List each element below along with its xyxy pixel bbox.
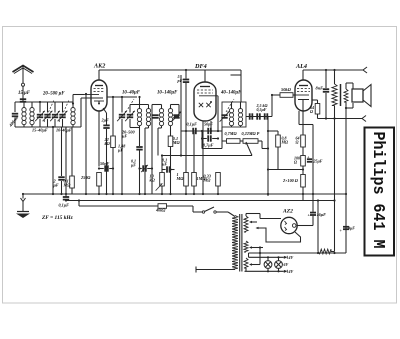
node xyxy=(333,69,335,71)
wire xyxy=(39,119,41,127)
wire xyxy=(302,187,304,201)
tap arrow xyxy=(249,263,260,265)
resistor (primary) xyxy=(332,70,337,106)
wire xyxy=(185,131,187,173)
label + xyxy=(307,155,310,160)
wire xyxy=(185,186,187,194)
capacitor 8nF xyxy=(323,89,329,92)
capacitor xyxy=(152,115,158,118)
svg-text:MΩ: MΩ xyxy=(176,176,185,181)
wire xyxy=(217,186,219,194)
label 2µF xyxy=(53,179,59,188)
variable capacitor xyxy=(117,111,127,121)
label 15-40µF xyxy=(32,128,48,133)
svg-text:+: + xyxy=(308,213,311,218)
svg-text:MΩ: MΩ xyxy=(63,182,72,187)
svg-text:10–40µF: 10–40µF xyxy=(122,91,141,96)
svg-text:µF: µF xyxy=(53,182,59,187)
wire AZ2 bottom loop xyxy=(256,227,301,242)
terminal arrow 4V xyxy=(283,270,287,273)
resistor 0.8MΩ xyxy=(276,131,281,170)
wire xyxy=(334,119,336,201)
connector tip xyxy=(362,116,366,122)
label 5pF xyxy=(177,74,183,83)
wire top rail xyxy=(99,70,241,80)
wire xyxy=(246,214,281,219)
wire cathode xyxy=(302,111,304,135)
capacitor 5pF xyxy=(183,80,189,83)
resistor 64Ω xyxy=(315,104,320,115)
wire xyxy=(112,148,114,195)
transformer core xyxy=(240,214,242,272)
resistor 10kΩ xyxy=(160,173,165,187)
svg-text:0,1µF: 0,1µF xyxy=(59,203,70,208)
connector xyxy=(21,198,26,202)
wire y155 xyxy=(162,155,252,157)
label + xyxy=(340,228,343,233)
label 0.1µF xyxy=(187,122,198,127)
wire xyxy=(331,201,335,252)
svg-text:15–40µF: 15–40µF xyxy=(32,128,48,133)
label 20-500µF xyxy=(121,130,135,139)
svg-text:DF4: DF4 xyxy=(194,63,207,70)
variable capacitor xyxy=(220,111,230,121)
variable capacitor 0.1µF xyxy=(140,165,153,172)
svg-text:10–40µF: 10–40µF xyxy=(56,128,72,133)
node xyxy=(52,126,54,128)
speaker xyxy=(352,85,371,107)
wire xyxy=(161,156,163,173)
label 4µF xyxy=(347,226,355,231)
wire xyxy=(65,127,67,197)
bus 3 xyxy=(79,201,158,207)
wire xyxy=(129,105,131,113)
tube DF4 innards xyxy=(197,87,218,108)
resistor 22kΩ xyxy=(111,136,116,148)
label 20-500µF xyxy=(42,92,65,97)
label 8nF xyxy=(316,86,324,91)
lamp rail bottom xyxy=(245,268,284,271)
resistor xyxy=(318,249,331,254)
capacitor xyxy=(257,113,260,119)
lamp rail top xyxy=(249,256,284,258)
potentiometer 0.22MΩ xyxy=(243,139,258,144)
gang dashed line xyxy=(59,100,69,122)
wire xyxy=(39,102,41,113)
wire rail2 xyxy=(318,118,363,120)
wire xyxy=(106,129,108,194)
ground drop xyxy=(22,194,24,211)
wire xyxy=(297,225,313,227)
potentiometer arrow xyxy=(156,183,163,190)
label 4V xyxy=(288,255,294,260)
label AL4 xyxy=(295,63,307,70)
wire xyxy=(181,130,222,132)
label 1MΩ xyxy=(176,172,185,181)
variable capacitor C4 xyxy=(58,111,68,121)
label 10kΩ xyxy=(150,174,156,183)
label 16µF xyxy=(317,212,327,217)
pot wiper xyxy=(245,142,252,156)
capacitor 400 cm xyxy=(12,114,18,117)
transformer core xyxy=(340,84,342,106)
capacitor xyxy=(250,113,253,119)
node xyxy=(325,117,327,119)
wire cathode xyxy=(98,111,100,167)
label 0.7µF xyxy=(203,143,214,148)
node xyxy=(345,107,347,109)
tube AZ2 innards xyxy=(285,221,297,231)
wire xyxy=(52,127,54,194)
node xyxy=(85,93,87,95)
transformer secondary winding 3 xyxy=(244,258,248,268)
capacitor 50pF xyxy=(208,128,211,134)
label AK2 xyxy=(93,63,105,70)
wire xyxy=(249,248,261,265)
wire xyxy=(221,127,223,149)
svg-text:MΩ: MΩ xyxy=(172,140,181,145)
wire xyxy=(73,95,84,104)
label 64Ω xyxy=(310,105,314,114)
wire xyxy=(145,128,149,194)
coil L1 xyxy=(22,102,26,127)
wire xyxy=(317,201,319,250)
svg-text:µF: µF xyxy=(117,147,123,152)
label 10-40µF xyxy=(122,91,141,96)
svg-text:4µF: 4µF xyxy=(347,226,355,231)
node xyxy=(317,199,319,201)
label 6V xyxy=(284,262,289,267)
tap arrow xyxy=(249,221,257,223)
svg-text:pF: pF xyxy=(177,78,183,83)
svg-text:0,7µF: 0,7µF xyxy=(203,143,214,148)
Philips 641 M text xyxy=(368,132,387,249)
node xyxy=(217,130,219,132)
label 400cm xyxy=(7,115,19,129)
coil L3 oscillator xyxy=(71,102,75,127)
resistor 1MΩ xyxy=(192,173,197,187)
wire switch feed xyxy=(193,206,202,212)
IF transformer T3 primary xyxy=(229,102,233,127)
wire xyxy=(222,140,227,142)
wire xyxy=(161,186,163,194)
label 64Ω xyxy=(296,136,300,145)
wire xyxy=(345,108,347,253)
node xyxy=(325,69,327,71)
node xyxy=(72,102,74,104)
svg-text:Ω: Ω xyxy=(310,109,313,114)
capacitor 4µF xyxy=(343,227,349,229)
wire xyxy=(70,101,74,103)
label 50kΩ xyxy=(281,87,292,92)
capacitor 16µF xyxy=(310,213,316,215)
label 25µF xyxy=(313,159,323,164)
label 0.22MΩ P xyxy=(242,131,260,136)
capacitor 1.88µF xyxy=(136,147,142,150)
wire xyxy=(346,102,353,108)
wire xyxy=(54,119,56,127)
label 0.1µF xyxy=(161,158,167,167)
wire xyxy=(210,121,212,131)
lamp xyxy=(264,256,272,272)
wire xyxy=(299,111,313,196)
wire xyxy=(268,169,303,171)
svg-text:0,7MΩ: 0,7MΩ xyxy=(225,131,238,136)
node xyxy=(267,130,269,171)
svg-text:4V: 4V xyxy=(288,255,294,260)
wire xyxy=(334,106,336,119)
wire xyxy=(317,114,319,119)
wire xyxy=(71,188,73,194)
wire grid xyxy=(90,93,92,95)
shield box T3 xyxy=(222,102,246,127)
wire xyxy=(325,70,327,88)
svg-text:Philips 641 M: Philips 641 M xyxy=(368,132,387,249)
svg-text:MΩ: MΩ xyxy=(203,177,212,182)
wire xyxy=(65,199,67,202)
wire xyxy=(240,140,243,142)
node xyxy=(333,117,335,119)
gang dashed line xyxy=(44,100,54,122)
tube AK2 xyxy=(91,80,107,111)
wire xyxy=(112,97,114,136)
connector tip xyxy=(363,67,367,73)
svg-text:25µF: 25µF xyxy=(313,159,323,164)
node xyxy=(302,168,304,170)
svg-text:50nF: 50nF xyxy=(100,161,110,166)
node xyxy=(138,96,140,98)
svg-text:50kΩ: 50kΩ xyxy=(281,87,292,92)
wire xyxy=(325,93,327,119)
coil L2 xyxy=(30,102,34,127)
capacitor 50nF xyxy=(99,165,113,171)
ground bus xyxy=(23,193,346,195)
wire xyxy=(201,131,203,149)
speaker coil xyxy=(344,89,348,102)
IF transformer T3 secondary xyxy=(238,102,242,127)
capacitor 0.1µF xyxy=(193,128,196,134)
tap arrow xyxy=(249,246,263,248)
svg-text:AZ2: AZ2 xyxy=(282,209,293,215)
transformer secondary winding 1 xyxy=(244,214,248,233)
wire xyxy=(61,181,63,194)
lamp xyxy=(275,256,283,272)
label 50nF xyxy=(100,161,110,166)
wire xyxy=(61,127,63,176)
tube AL4 innards xyxy=(295,86,310,112)
wire mains xyxy=(196,267,235,273)
resistor 0.33MΩ xyxy=(216,173,221,187)
node xyxy=(112,96,114,98)
svg-text:250Ω: 250Ω xyxy=(80,175,91,180)
wire xyxy=(246,116,272,118)
label 2.5kΩ xyxy=(256,103,268,112)
capacitor 25µF xyxy=(307,159,312,162)
wire xyxy=(152,105,162,117)
resistor 64Ω xyxy=(301,135,306,147)
wire xyxy=(47,119,49,127)
capacitor 2µF xyxy=(58,177,64,180)
wire xyxy=(302,166,304,175)
label 22kΩ xyxy=(104,137,111,146)
svg-text:10–140µF: 10–140µF xyxy=(157,91,178,96)
IF transformer T2 secondary xyxy=(168,105,172,137)
resistor 50kΩ xyxy=(272,93,295,98)
svg-text:40–140µF: 40–140µF xyxy=(220,91,242,96)
wire xyxy=(185,83,187,131)
wire xyxy=(271,95,273,117)
wire xyxy=(62,102,64,113)
wire xyxy=(185,70,187,79)
label 4V xyxy=(288,269,294,274)
node xyxy=(185,69,187,71)
wire plate xyxy=(107,96,137,98)
resistor 100Ω xyxy=(301,156,306,167)
label 2µF xyxy=(101,118,110,123)
node xyxy=(271,94,273,96)
wire bottom bus xyxy=(249,252,347,254)
node xyxy=(39,101,41,103)
terminal arrow 4V xyxy=(283,256,287,259)
wire xyxy=(317,249,319,252)
label 1.88µF xyxy=(117,144,126,153)
resistor 1MΩ xyxy=(184,173,189,187)
wire xyxy=(302,147,304,156)
wire xyxy=(71,127,73,176)
node xyxy=(121,96,123,98)
bus 2 xyxy=(66,200,335,202)
label 2x100Ω xyxy=(282,178,299,183)
wire rail drop xyxy=(231,70,242,102)
node xyxy=(22,193,24,195)
transformer primary xyxy=(232,216,238,270)
label AZ2 xyxy=(282,209,293,215)
svg-text:8nF: 8nF xyxy=(316,86,324,91)
capacitor 0.7µF xyxy=(202,135,218,141)
svg-text:0,1µF: 0,1µF xyxy=(187,122,198,127)
wire top cap xyxy=(204,70,206,82)
node xyxy=(161,154,182,156)
wire xyxy=(180,75,182,156)
tube AL4 xyxy=(295,80,312,111)
ground xyxy=(16,212,30,219)
wire xyxy=(171,105,180,117)
svg-text:Ω: Ω xyxy=(296,139,299,144)
gang dashed line xyxy=(126,99,134,112)
svg-text:ZF = 115 kHz: ZF = 115 kHz xyxy=(41,215,74,221)
wire xyxy=(103,108,107,125)
antenna xyxy=(13,66,34,103)
variable capacitor C3 xyxy=(50,111,60,121)
resistor 0.7MΩ xyxy=(227,139,241,144)
svg-text:µF: µF xyxy=(130,162,136,167)
wire xyxy=(312,100,318,104)
wire xyxy=(40,101,70,103)
svg-text:40kΩ: 40kΩ xyxy=(155,208,166,213)
transformer secondary winding 2 xyxy=(244,241,248,252)
svg-text:kΩ: kΩ xyxy=(105,141,111,146)
tube AK2 innards xyxy=(81,86,104,105)
wire xyxy=(158,128,162,156)
label 1MΩ xyxy=(197,176,207,181)
wire xyxy=(85,94,87,194)
svg-text:AK2: AK2 xyxy=(93,63,105,70)
svg-text:kΩ: kΩ xyxy=(150,177,156,182)
wire xyxy=(167,205,194,207)
variable capacitor xyxy=(125,111,135,121)
svg-text:6V: 6V xyxy=(284,262,289,267)
wire xyxy=(152,117,179,195)
node xyxy=(138,167,153,169)
wire xyxy=(54,102,56,113)
wire xyxy=(15,102,40,112)
wire xyxy=(139,151,141,195)
wire xyxy=(268,130,278,132)
label 0.7MΩ xyxy=(225,131,238,136)
label 0.1µF xyxy=(59,203,70,208)
wire xyxy=(151,105,153,114)
svg-text:50pF: 50pF xyxy=(204,122,213,127)
wire xyxy=(312,216,314,226)
IF transformer T1 primary xyxy=(137,97,141,128)
tube AZ2 xyxy=(281,217,297,233)
variable capacitor C2 xyxy=(43,111,53,121)
label 10-140µF xyxy=(157,91,178,96)
wire xyxy=(228,212,235,217)
wire xyxy=(121,97,123,113)
wire xyxy=(193,132,195,194)
wire cathode xyxy=(202,121,204,194)
svg-text:2µF: 2µF xyxy=(101,118,110,123)
wire xyxy=(62,119,64,127)
label 15µF xyxy=(18,91,31,96)
wire xyxy=(139,128,141,147)
wire xyxy=(80,98,82,127)
node xyxy=(169,168,171,170)
svg-text:MΩ: MΩ xyxy=(281,139,289,144)
node xyxy=(98,167,114,169)
wire xyxy=(267,117,269,197)
node dots on bus xyxy=(52,193,347,202)
variable capacitor xyxy=(172,111,182,121)
svg-text:AL4: AL4 xyxy=(295,63,307,70)
label 0.33MΩ xyxy=(203,174,212,183)
label 0.1µF xyxy=(130,159,136,168)
svg-text:Ω: Ω xyxy=(294,159,297,164)
label 250Ω xyxy=(80,175,91,180)
wire xyxy=(312,196,314,212)
svg-text:15 µF: 15 µF xyxy=(18,91,31,96)
tube DF4 xyxy=(194,82,216,121)
wire xyxy=(130,119,140,128)
label 0.8MΩ xyxy=(281,136,289,145)
wire xyxy=(121,119,123,194)
capacitor 0.1µF xyxy=(162,166,175,172)
node xyxy=(185,130,212,132)
label 10-40µF xyxy=(56,128,72,133)
svg-text:0,5µF: 0,5µF xyxy=(257,107,267,112)
resistor 0.1MΩ xyxy=(70,176,75,188)
wire xyxy=(217,96,219,131)
Philips 641 M box xyxy=(365,128,395,256)
label 40kΩ xyxy=(155,208,166,213)
IF transformer T1 secondary xyxy=(146,105,150,129)
wire xyxy=(130,104,149,106)
wire bottom rail xyxy=(15,126,81,128)
resistor 2x100Ω xyxy=(301,175,306,188)
resistor 0.1MΩ xyxy=(168,136,173,147)
capacitor 0.5µF xyxy=(265,113,268,119)
